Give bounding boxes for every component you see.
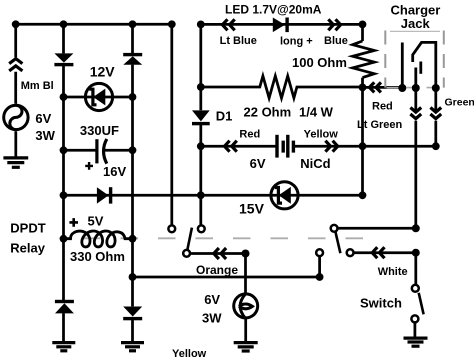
relay left contact A xyxy=(168,225,175,232)
charger jack inner contact xyxy=(419,62,422,74)
charger jack tip contact xyxy=(401,43,404,86)
svg-text:Green: Green xyxy=(445,97,474,109)
junction jack tip xyxy=(398,84,406,92)
switch lever xyxy=(419,293,424,315)
svg-text:330UF: 330UF xyxy=(80,123,119,138)
junction NC net right xyxy=(316,273,324,281)
marker chevrons left (Red battery) xyxy=(225,141,237,152)
zener diode 15V in circle xyxy=(271,182,298,209)
resistor R2 100 Ohm vertical zigzag xyxy=(353,41,375,78)
marker chevrons up (bulb lead) xyxy=(9,59,22,71)
marker chevrons right (Blue) xyxy=(328,19,340,30)
junction coil right xyxy=(129,235,137,243)
svg-text:15V: 15V xyxy=(239,201,265,217)
junction 15V net right xyxy=(359,191,367,199)
wire column x201 upper xyxy=(199,24,202,110)
junction jack middle xyxy=(412,84,420,92)
relay right lever xyxy=(335,232,340,254)
diode horizontal on 15V net (cathode right) xyxy=(97,187,112,203)
wire switch ground stub xyxy=(414,323,417,338)
marker chevrons right (Yellow battery) xyxy=(325,141,337,152)
charger jack middle pin xyxy=(414,68,417,86)
junction 15V net left xyxy=(60,191,68,199)
junction white corner xyxy=(412,249,420,257)
junction x132 top xyxy=(129,20,137,28)
junction 22ohm net right xyxy=(359,84,367,92)
junction 12V net right xyxy=(129,93,137,101)
marker chevrons left (Red jack) xyxy=(369,82,381,92)
switch throw contact xyxy=(411,315,418,322)
wire lt green lead xyxy=(414,88,417,228)
wire bulb column lower xyxy=(14,131,17,158)
diode at x132 top (cathode up) xyxy=(123,53,142,65)
wire relay contact column x172 xyxy=(170,24,173,225)
relay right contact C xyxy=(316,249,323,256)
svg-text:Switch: Switch xyxy=(360,295,402,310)
svg-text:Orange: Orange xyxy=(196,263,238,277)
junction cap net left xyxy=(60,146,68,154)
wire green lead xyxy=(434,88,437,146)
junction 15V net mid xyxy=(197,191,205,199)
svg-text:DPDT: DPDT xyxy=(10,221,45,236)
junction x63 top xyxy=(60,20,68,28)
relay left lever xyxy=(187,228,192,250)
wire top-right LED net xyxy=(201,23,363,26)
ground below switch xyxy=(404,338,428,346)
zener diode 12V in circle xyxy=(85,83,112,110)
wire capacitor net xyxy=(64,149,133,152)
charger jack dashed enclosure xyxy=(385,31,444,88)
switch pole contact xyxy=(412,285,419,292)
svg-text:long +: long + xyxy=(280,35,313,47)
marker chevrons left (Orange) xyxy=(214,248,226,259)
svg-text:Lt Green: Lt Green xyxy=(357,119,403,131)
junction 12V net left xyxy=(60,93,68,101)
svg-text:Lt Blue: Lt Blue xyxy=(220,35,257,47)
svg-text:3W: 3W xyxy=(35,128,55,143)
svg-text:1/4 W: 1/4 W xyxy=(299,104,334,119)
svg-text:22 Ohm: 22 Ohm xyxy=(244,104,292,119)
wire column x63 upper xyxy=(62,24,65,53)
diode at x63 bottom (cathode up) xyxy=(55,300,74,314)
relay right contact D xyxy=(347,249,354,256)
relay right common contact xyxy=(331,225,338,232)
junction orange lamp xyxy=(242,250,250,258)
wire column x132 upper xyxy=(131,24,134,53)
junction bulb top xyxy=(12,20,20,28)
wire orange lead xyxy=(190,252,246,255)
ground bottom left x63 xyxy=(52,343,75,351)
svg-text:12V: 12V xyxy=(90,64,116,80)
plus sign capacitor xyxy=(85,162,93,170)
wire lamp column xyxy=(244,254,247,294)
wire lamp ground stub xyxy=(244,318,247,343)
junction coil left xyxy=(60,235,68,243)
svg-text:Relay: Relay xyxy=(10,241,45,256)
svg-text:6V: 6V xyxy=(35,111,51,126)
junction battery net left xyxy=(197,142,205,150)
marker chevrons left (White) xyxy=(372,247,384,258)
junction cap net right xyxy=(129,146,137,154)
wire 12V zener net xyxy=(64,96,133,99)
junction x172 top xyxy=(168,20,176,28)
marker chevrons down (Green) xyxy=(430,108,441,119)
ground below bulb xyxy=(3,158,28,167)
junction x201 top xyxy=(197,21,205,29)
svg-text:100 Ohm: 100 Ohm xyxy=(292,55,347,70)
svg-text:LED 1.7V@20mA: LED 1.7V@20mA xyxy=(225,3,322,17)
wire jack red lead xyxy=(363,86,403,89)
wire white lead horizontal xyxy=(354,251,416,254)
junction jack sleeve xyxy=(432,84,440,92)
LED symbol on top net (cathode right) xyxy=(273,18,289,33)
diode D1 (cathode down) xyxy=(192,110,210,125)
lamp B1 miniature bulb Mm Bl xyxy=(4,105,28,129)
wire battery net left xyxy=(201,145,277,148)
wire column x132 middle xyxy=(131,65,134,307)
wire 15V zener net xyxy=(64,194,363,197)
capacitor C1 330UF xyxy=(97,139,107,164)
svg-text:Blue: Blue xyxy=(324,35,348,47)
wire 100 Ohm column lower xyxy=(361,78,364,196)
svg-text:16V: 16V xyxy=(103,164,126,179)
svg-text:Yellow: Yellow xyxy=(304,129,339,141)
junction battery net mid xyxy=(359,142,367,150)
wire battery net right xyxy=(293,145,436,148)
wire white lead vertical xyxy=(414,253,417,285)
svg-text:Yellow: Yellow xyxy=(172,348,207,360)
diode at x132 bottom (cathode down) xyxy=(123,307,142,321)
relay actuation dashed line xyxy=(75,237,370,239)
svg-text:D1: D1 xyxy=(216,109,233,124)
wire 22 Ohm net with resistor R1 zigzag xyxy=(201,76,363,98)
lamp LP2 6V 3W xyxy=(234,294,258,319)
junction green corner xyxy=(432,142,440,150)
junction 22ohm net left xyxy=(197,83,205,91)
diode at x63 top (cathode down) xyxy=(54,53,73,66)
svg-text:3W: 3W xyxy=(202,311,222,326)
relay coil L1 330 Ohm xyxy=(64,231,133,247)
relay left contact B xyxy=(198,225,205,232)
wire column x201 lower xyxy=(199,124,202,225)
svg-text:Jack: Jack xyxy=(401,16,431,31)
svg-text:Mm Bl: Mm Bl xyxy=(21,80,54,92)
svg-text:Red: Red xyxy=(239,129,260,141)
wire column x63 lower xyxy=(62,313,65,342)
svg-text:Red: Red xyxy=(372,101,393,113)
junction lt green relay xyxy=(412,224,420,232)
svg-text:330 Ohm: 330 Ohm xyxy=(70,249,125,264)
wire top-left bus xyxy=(16,23,172,26)
wire relay NC net y277 xyxy=(133,276,320,279)
relay left armature contact xyxy=(183,250,190,257)
marker chevrons left (Lt Blue) xyxy=(222,19,234,30)
svg-text:White: White xyxy=(378,266,408,278)
wire 100 Ohm column upper stub xyxy=(361,24,364,41)
wire column x63 middle xyxy=(62,65,65,301)
wire relay right common xyxy=(338,227,416,230)
battery BT1 6V NiCd xyxy=(277,135,293,158)
svg-text:5V: 5V xyxy=(88,214,104,229)
ground bottom x132 xyxy=(121,343,144,351)
wire relay contact stub x319 xyxy=(318,256,321,277)
plus sign coil xyxy=(69,218,78,227)
svg-text:6V: 6V xyxy=(204,292,220,307)
wire column x132 lower xyxy=(131,319,134,343)
marker chevrons down (Lt Green) xyxy=(410,108,421,119)
junction NC net left xyxy=(129,273,137,281)
svg-text:NiCd: NiCd xyxy=(300,156,330,171)
charger jack plug outline xyxy=(413,42,436,88)
svg-text:6V: 6V xyxy=(250,156,266,171)
junction x362 top xyxy=(359,21,367,29)
wire bulb column upper xyxy=(14,24,17,104)
ground below lamp xyxy=(234,343,258,351)
